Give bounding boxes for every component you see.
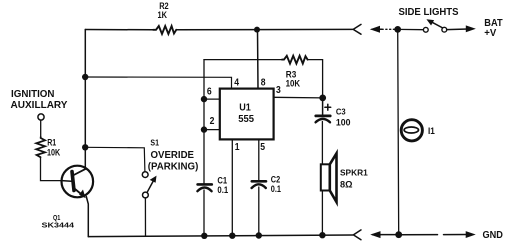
svg-text:IGNITION: IGNITION bbox=[11, 89, 55, 100]
label R3 value 10K bbox=[286, 79, 301, 90]
svg-text:+V: +V bbox=[484, 28, 496, 39]
svg-text:8Ω: 8Ω bbox=[340, 180, 353, 191]
capacitor C1 bbox=[197, 184, 211, 191]
resistor R3 bbox=[282, 56, 308, 64]
svg-text:8: 8 bbox=[261, 78, 266, 89]
node speaker rail junction bbox=[319, 232, 325, 238]
label R3 bbox=[286, 69, 297, 80]
wire pin3 out bbox=[274, 96, 323, 99]
svg-text:OVERIDE: OVERIDE bbox=[151, 150, 195, 161]
wire R1 to Q1 base bbox=[41, 157, 62, 180]
label SPKR1 bbox=[340, 168, 368, 178]
label R1 bbox=[47, 138, 57, 149]
svg-text:10K: 10K bbox=[286, 79, 301, 90]
label R2 value 1K bbox=[158, 10, 168, 21]
svg-text:AUXILLARY: AUXILLARY bbox=[11, 100, 68, 111]
svg-text:SK3444: SK3444 bbox=[42, 221, 76, 230]
node C2 rail junction bbox=[256, 232, 262, 238]
svg-text:10K: 10K bbox=[47, 148, 60, 159]
svg-text:S1: S1 bbox=[150, 138, 159, 147]
wire node to pin4 bbox=[85, 77, 231, 89]
lamp I1 bbox=[401, 120, 422, 141]
svg-text:6: 6 bbox=[207, 86, 212, 97]
svg-text:4: 4 bbox=[234, 78, 239, 89]
node top rail to pin8 junction bbox=[254, 27, 260, 33]
label C3 bbox=[336, 107, 346, 117]
wire lamp vertical bbox=[398, 29, 399, 234]
wire pin8 drop bbox=[257, 30, 260, 89]
node side lights junction bbox=[394, 26, 401, 33]
label R2 bbox=[159, 1, 169, 12]
node left vertical to pin4 wire bbox=[82, 74, 88, 80]
wire harness left arrow bottom bbox=[372, 232, 396, 238]
wire S1 to bottom rail bbox=[144, 198, 146, 236]
label I1 bbox=[428, 126, 435, 136]
label S1 (PARKING) bbox=[148, 161, 199, 172]
node pin2 junction bbox=[201, 126, 207, 132]
svg-text:C3: C3 bbox=[336, 107, 346, 117]
label C1 value 0.1 bbox=[217, 185, 228, 196]
label SIDE LIGHTS bbox=[399, 7, 459, 18]
node pin6 junction bbox=[201, 96, 207, 102]
label pin 6 bbox=[207, 86, 212, 97]
wire pin2 stub bbox=[204, 129, 220, 131]
label C3 value 100 bbox=[336, 118, 351, 129]
node pin1 rail junction bbox=[229, 233, 235, 239]
node left vertical to S1 wire bbox=[82, 144, 88, 150]
resistor R2 bbox=[153, 26, 176, 34]
label U1 part 555 bbox=[238, 114, 254, 125]
capacitor C2 bbox=[252, 181, 266, 188]
wire pin1 to rail bbox=[231, 139, 233, 236]
wire C2 to rail bbox=[258, 187, 260, 236]
wire pin6 pin2 vertical bbox=[203, 60, 205, 185]
label BAT bbox=[484, 18, 502, 29]
svg-text:(PARKING): (PARKING) bbox=[148, 161, 199, 172]
label pin 8 bbox=[261, 78, 266, 89]
capacitor C3 polarized bbox=[316, 116, 331, 122]
svg-text:SIDE LIGHTS: SIDE LIGHTS bbox=[399, 7, 459, 18]
label pin 4 bbox=[234, 78, 239, 89]
wire bottom rail bbox=[88, 235, 353, 237]
node pin3 R3 C3 junction bbox=[319, 95, 326, 102]
wire left vertical bbox=[84, 30, 86, 169]
op-amp U1 555 timer box bbox=[220, 89, 274, 140]
label C2 value 0.1 bbox=[271, 184, 282, 195]
label S1 bbox=[150, 138, 159, 147]
svg-text:0.1: 0.1 bbox=[217, 185, 228, 196]
label pin 3 bbox=[276, 85, 281, 96]
svg-text:100: 100 bbox=[336, 118, 351, 129]
wire Q1 emitter to bottom rail bbox=[86, 197, 88, 237]
wire C3 to speaker to rail bbox=[321, 122, 323, 236]
label C3 plus bbox=[325, 104, 331, 110]
svg-text:3: 3 bbox=[276, 85, 281, 96]
svg-text:0.1: 0.1 bbox=[271, 184, 282, 195]
wire terminal to R1 bbox=[40, 120, 42, 137]
wire R3 feed horizontal bbox=[204, 59, 282, 61]
label BAT +V bbox=[484, 28, 496, 39]
wire C1 to rail bbox=[203, 190, 205, 236]
connector bottom chevron bbox=[353, 230, 361, 240]
wire harness left arrow top bbox=[371, 27, 396, 33]
wire switch to BAT arrow bbox=[447, 26, 475, 32]
node C1 rail junction bbox=[201, 233, 207, 239]
switch S1 bbox=[142, 172, 156, 198]
node gnd junction bbox=[395, 231, 402, 238]
wire pin5 to C2 bbox=[258, 139, 260, 181]
speaker SPKR1 bbox=[321, 153, 337, 202]
label SPKR1 impedance 8 ohm bbox=[340, 180, 353, 191]
label U1 bbox=[239, 102, 251, 113]
wire R3 to pin3 node bbox=[308, 60, 323, 98]
svg-text:U1: U1 bbox=[239, 102, 251, 113]
wire node to S1 bbox=[85, 147, 145, 171]
wire top rail left segment bbox=[85, 29, 153, 31]
switch side lights bbox=[398, 20, 447, 32]
svg-text:1K: 1K bbox=[158, 10, 168, 21]
label GND bbox=[483, 230, 503, 241]
svg-text:SPKR1: SPKR1 bbox=[340, 168, 368, 178]
wire gnd arrow bbox=[399, 232, 475, 238]
wire top rail right segment bbox=[176, 28, 352, 30]
terminal ignition input bbox=[38, 114, 44, 120]
label pin 2 bbox=[210, 116, 215, 127]
label C1 bbox=[217, 176, 227, 187]
transistor Q1 bbox=[62, 166, 94, 198]
svg-text:1: 1 bbox=[235, 142, 240, 153]
svg-text:5: 5 bbox=[260, 142, 265, 153]
label S1 OVERIDE bbox=[151, 150, 195, 161]
wire pin3 node to C3 bbox=[322, 98, 324, 115]
label C2 bbox=[271, 175, 280, 186]
label ignition auxillary bbox=[11, 89, 68, 111]
label pin 5 bbox=[260, 142, 265, 153]
svg-text:555: 555 bbox=[238, 114, 254, 125]
resistor R1 bbox=[36, 137, 45, 157]
svg-text:I1: I1 bbox=[428, 126, 435, 136]
label Q1 part SK3444 bbox=[42, 221, 76, 230]
svg-text:2: 2 bbox=[210, 116, 215, 127]
label Q1 bbox=[53, 213, 60, 222]
connector top chevron bbox=[353, 24, 361, 34]
label pin 1 bbox=[235, 142, 240, 153]
label R1 value 10K bbox=[47, 148, 60, 159]
svg-text:GND: GND bbox=[483, 230, 503, 241]
wire pin6 stub bbox=[204, 98, 220, 100]
